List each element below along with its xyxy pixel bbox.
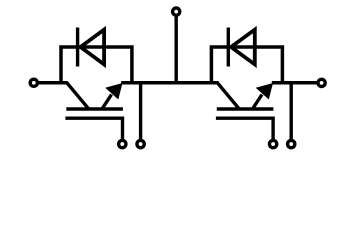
IGBT Q2 [214, 83, 274, 141]
terminal G2 [269, 140, 276, 147]
diode D2 [228, 28, 255, 67]
IGBT Q1 [63, 83, 123, 141]
terminal C1 [30, 79, 37, 86]
diode D2 rail wire [211, 47, 282, 85]
diode D1 [78, 28, 105, 67]
wire E2 aux lead [290, 84, 293, 141]
wire E1 bus [121, 81, 218, 85]
diode D1 rail wire [61, 47, 132, 85]
wire E1 aux lead [139, 84, 142, 141]
terminal E1aux [137, 140, 144, 147]
wire E2 [272, 81, 317, 85]
terminal E1C2 [173, 8, 180, 15]
terminal E2aux [288, 140, 295, 147]
wire E1C2 lead [174, 16, 177, 85]
terminal G1 [119, 140, 126, 147]
terminal E2 [318, 79, 325, 86]
wire C1 lead [39, 81, 67, 85]
